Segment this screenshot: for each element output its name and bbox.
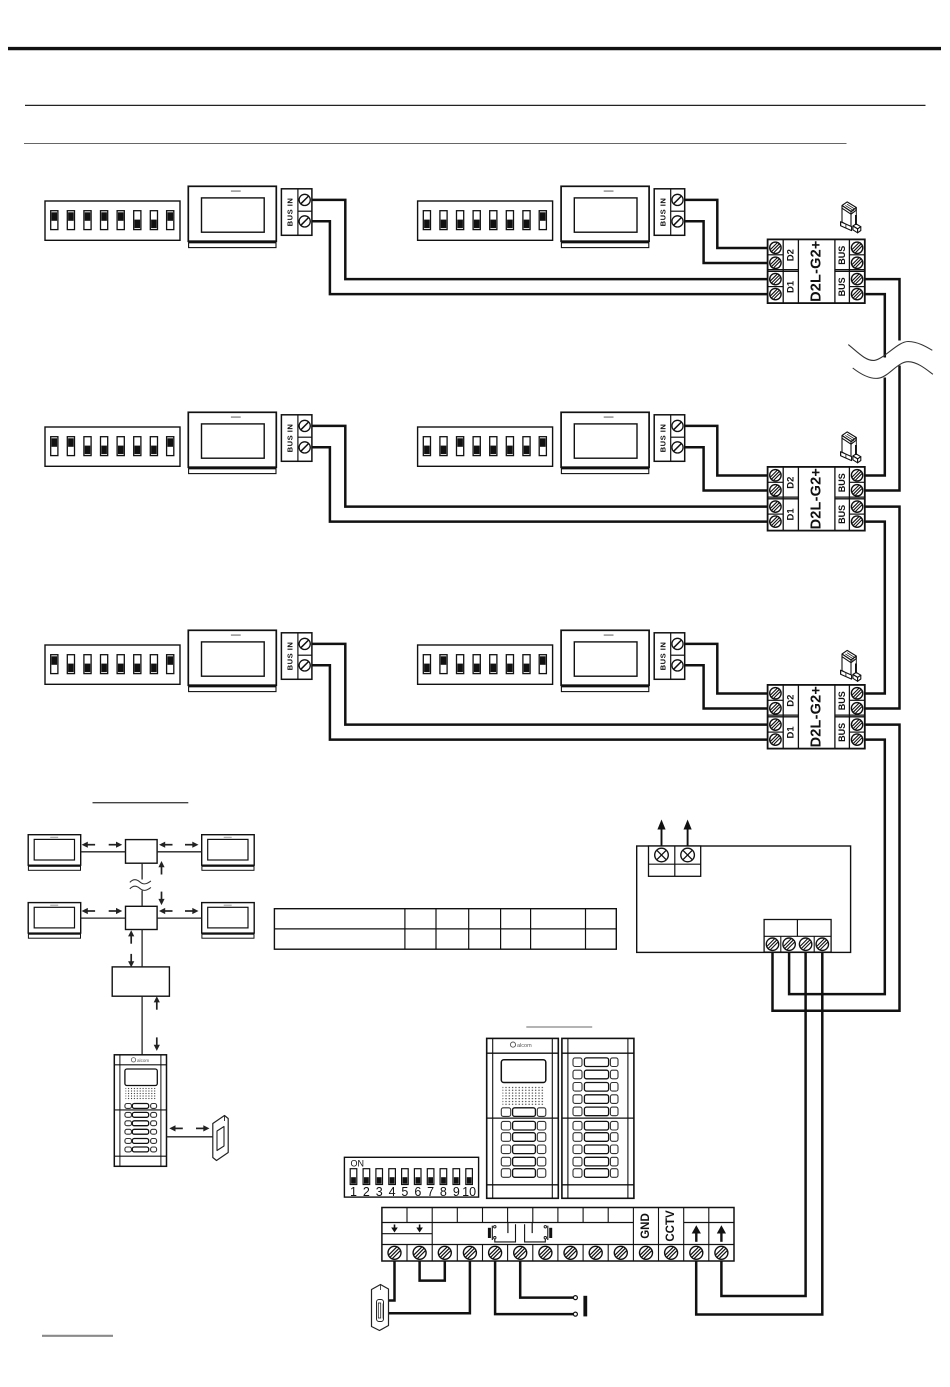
svg-text:7: 7 bbox=[427, 1185, 434, 1199]
svg-text:1: 1 bbox=[350, 1185, 357, 1199]
svg-text:ON: ON bbox=[351, 1159, 365, 1169]
svg-text:8: 8 bbox=[440, 1185, 447, 1199]
svg-text:5: 5 bbox=[401, 1185, 408, 1199]
svg-text:4: 4 bbox=[389, 1185, 396, 1199]
svg-text:alcom: alcom bbox=[517, 1043, 532, 1049]
svg-text:10: 10 bbox=[462, 1185, 476, 1199]
svg-text:GND: GND bbox=[640, 1213, 652, 1239]
svg-text:6: 6 bbox=[414, 1185, 421, 1199]
svg-text:2: 2 bbox=[363, 1185, 370, 1199]
svg-text:9: 9 bbox=[453, 1185, 460, 1199]
svg-text:3: 3 bbox=[376, 1185, 383, 1199]
svg-text:CCTV: CCTV bbox=[665, 1210, 677, 1242]
svg-text:alcom: alcom bbox=[137, 1058, 149, 1063]
